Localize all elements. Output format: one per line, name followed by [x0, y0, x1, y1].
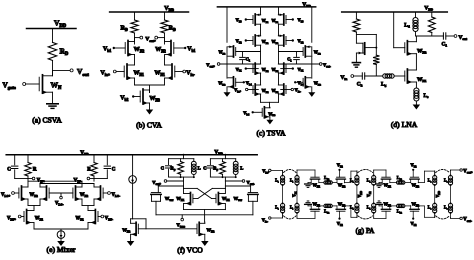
svg-text:Vout+: Vout+ — [463, 169, 473, 174]
svg-text:WN2: WN2 — [30, 193, 39, 198]
svg-text:C: C — [161, 166, 164, 171]
svg-text:VLO-: VLO- — [112, 193, 121, 198]
svg-text:VRF+: VRF+ — [7, 216, 16, 221]
svg-text:(a) CSVA: (a) CSVA — [32, 116, 62, 125]
svg-text:(c) TSVA: (c) TSVA — [256, 129, 286, 138]
svg-text:(b) CVA: (b) CVA — [136, 121, 162, 130]
svg-text:WN2: WN2 — [80, 193, 89, 198]
svg-text:(d) LNA: (d) LNA — [391, 120, 418, 129]
svg-text:R: R — [33, 167, 37, 172]
svg-text:VLO+: VLO+ — [1, 193, 11, 198]
svg-text:VRF-: VRF- — [105, 216, 113, 221]
svg-text:(e) Mixer: (e) Mixer — [47, 245, 76, 254]
svg-text:C: C — [112, 167, 116, 172]
svg-text:L: L — [198, 166, 201, 171]
svg-text:C: C — [203, 166, 206, 171]
svg-text:VLO-: VLO- — [55, 202, 64, 207]
svg-text:(g) PA: (g) PA — [356, 227, 376, 235]
svg-text:(f) VCO: (f) VCO — [177, 246, 203, 255]
svg-text:Vout-: Vout- — [463, 218, 472, 223]
svg-text:R: R — [87, 167, 91, 172]
svg-text:WN1: WN1 — [35, 216, 44, 221]
svg-text:C: C — [7, 167, 11, 172]
svg-text:WN1: WN1 — [76, 216, 85, 221]
svg-text:L: L — [240, 166, 243, 171]
